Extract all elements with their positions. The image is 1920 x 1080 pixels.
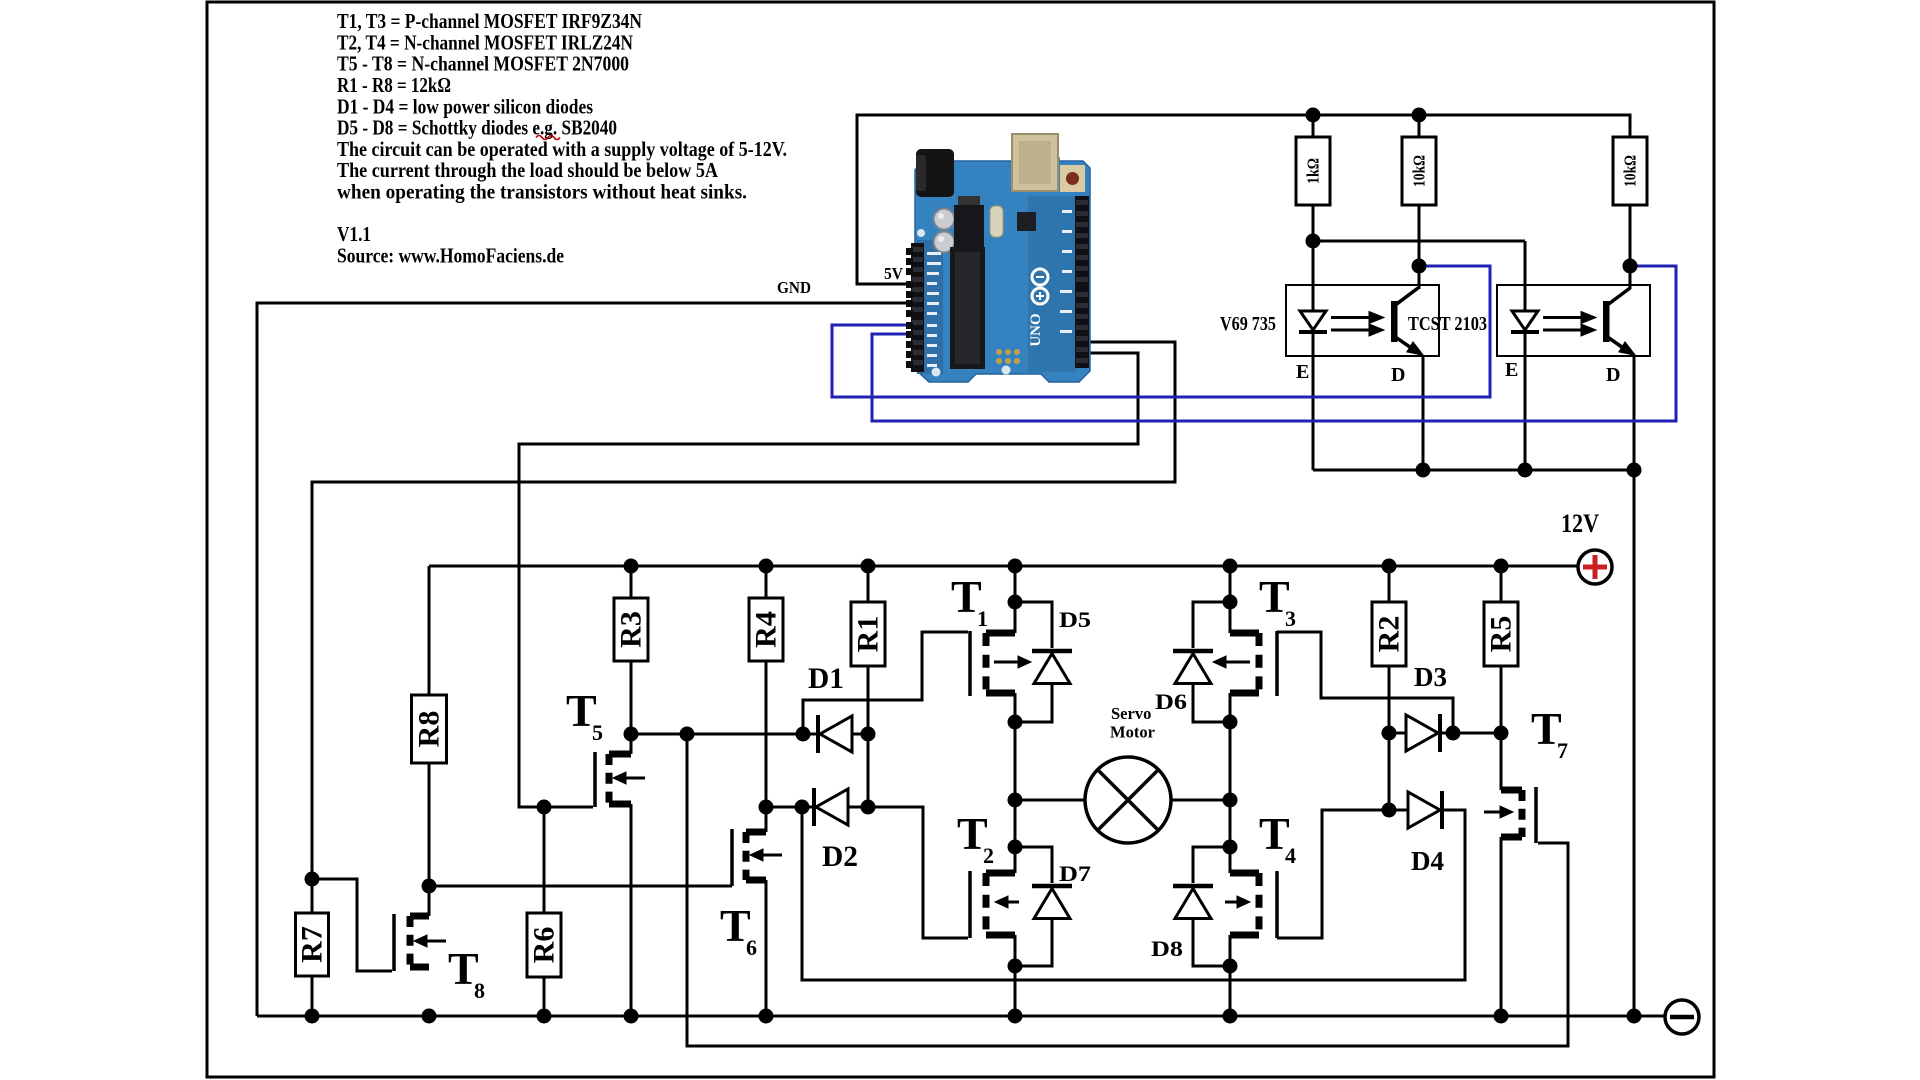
Arduino pin header left [911, 243, 924, 372]
wire LED2 anode [1524, 241, 1527, 311]
svg-text:D7: D7 [1059, 861, 1091, 886]
node T3 drain D6 [1223, 595, 1238, 610]
svg-text:Motor: Motor [1110, 723, 1155, 742]
svg-text:10kΩ: 10kΩ [1410, 155, 1429, 187]
node T7 gate tap [680, 727, 695, 742]
wire top 12V rail [429, 565, 1578, 568]
Arduino mounting holes [932, 368, 941, 377]
node R4 D2 [759, 800, 774, 815]
blue wire Arduino A1 to phototransistor2 collector [872, 266, 1676, 421]
resistor R2 [1372, 602, 1406, 666]
resistor R1 [851, 602, 885, 666]
wire D2 node to T2 gate [868, 807, 968, 938]
resistor 10kohm right [1613, 137, 1647, 205]
wire T4 gate to D4 anode node [1277, 810, 1389, 938]
Arduino electrolytic capacitors [934, 209, 955, 230]
wire T7 source to bottom rail [1500, 837, 1503, 1016]
servo motor [1085, 757, 1171, 843]
node rail R6 [537, 1009, 552, 1024]
transistor T1 (IRF9Z34N) [986, 633, 1015, 693]
wire Arduino digital out B to T5 gate [519, 353, 1138, 807]
svg-text:R6: R6 [528, 927, 561, 964]
transistor T2 (IRLZ24N) [986, 873, 1015, 935]
wire D2 node to D4 cathode (long route) [802, 807, 1465, 980]
transistor T6 arrow [750, 849, 782, 861]
wire LED2 cathode down [1524, 333, 1527, 470]
wire R2 to D3/D4 nodes [1388, 666, 1391, 810]
transistor T3 gate bar [1275, 631, 1279, 696]
wire D7 bottom branch [1015, 920, 1052, 966]
wire phototransistor1 emitter down [1422, 356, 1425, 470]
wire D7 top branch [1015, 847, 1052, 883]
wire node to R7 [311, 879, 314, 913]
Arduino SMD IC [1017, 212, 1036, 231]
node R2 D3 [1382, 726, 1397, 741]
Arduino voltage regulator [954, 205, 984, 247]
red squiggle under e.g. [536, 136, 560, 140]
node T3 source D6 [1223, 715, 1238, 730]
node emitter1 rail [1416, 463, 1431, 478]
wire T8 gate lead [312, 879, 392, 971]
node D1 cathode [796, 727, 811, 742]
diode D2 [814, 788, 848, 826]
transistor T4 (IRLZ24N) [1230, 873, 1259, 935]
node R1 D2 [861, 800, 876, 815]
svg-text:UNO: UNO [1028, 313, 1044, 346]
node R3 T5 [624, 727, 639, 742]
info text block [337, 9, 787, 267]
node motor left [1008, 793, 1023, 808]
Arduino crystal [990, 206, 1003, 237]
transistor T2 arrow [995, 896, 1019, 908]
svg-text:D6: D6 [1155, 689, 1187, 714]
node collector2 [1623, 259, 1638, 274]
svg-text:1kΩ: 1kΩ [1304, 158, 1323, 184]
wire rail to R8 [428, 566, 431, 695]
wire T3 source to motor node [1229, 693, 1232, 800]
svg-text:E: E [1505, 359, 1518, 381]
svg-text:D1: D1 [808, 662, 844, 695]
svg-text:E: E [1296, 361, 1309, 383]
optocoupler 1 phototransistor [1391, 288, 1425, 356]
node rail R5 [1494, 559, 1509, 574]
node rail R4 [759, 559, 774, 574]
svg-text:6: 6 [746, 935, 757, 960]
wire T5 gate node to R6 [543, 807, 546, 913]
optocoupler 2 box [1497, 285, 1650, 356]
node rail T8 [422, 1009, 437, 1024]
wire 10k ohm top tap [1418, 115, 1421, 137]
svg-text:4: 4 [1285, 843, 1296, 868]
wire D8 bottom branch [1193, 920, 1230, 966]
wire R4 to T6 drain [765, 661, 768, 832]
resistor R3 [614, 598, 648, 661]
node rail T7 [1494, 1009, 1509, 1024]
node motor right [1223, 793, 1238, 808]
Arduino ICSP header [996, 349, 1020, 364]
svg-text:TCST 2103: TCST 2103 [1408, 313, 1487, 335]
node rail R3 [624, 559, 639, 574]
node T2 source D7 [1008, 959, 1023, 974]
svg-text:D8: D8 [1151, 936, 1183, 961]
wire T5 source to bottom rail [630, 804, 633, 1016]
resistor 10kohm left [1402, 137, 1436, 205]
wire T4 source to bottom rail [1229, 935, 1232, 1016]
wire 1k ohm top tap [1312, 115, 1315, 137]
svg-text:3: 3 [1285, 606, 1296, 631]
diode D5 (Schottky) [1032, 651, 1072, 684]
svg-text:R8: R8 [413, 711, 446, 748]
node T1 drain D5 [1008, 595, 1023, 610]
wire T2 source to bottom rail [1014, 935, 1017, 1016]
node rail T4 [1223, 1009, 1238, 1024]
optocoupler 1 light arrow upper [1331, 312, 1384, 324]
Arduino ATmega DIP-28 IC [950, 247, 985, 369]
svg-text:8: 8 [474, 978, 485, 1003]
transistor T4 arrow [1225, 896, 1250, 908]
resistor R6 [527, 913, 561, 977]
wire D6 bottom branch [1193, 685, 1230, 722]
wire motor node to T4 drain [1229, 800, 1232, 873]
node rail R1 [861, 559, 876, 574]
node T1 source D5 [1008, 715, 1023, 730]
wire D8 top branch [1193, 847, 1230, 883]
svg-text:12V: 12V [1561, 509, 1599, 538]
transistor T6 (2N7000) [732, 829, 766, 886]
wire T1 source to motor node [1014, 693, 1017, 800]
transistor T8 arrow [414, 935, 446, 947]
node rail T2 [1008, 1009, 1023, 1024]
wire rail to R2 [1388, 566, 1391, 602]
svg-text:1: 1 [977, 606, 988, 631]
Arduino silkscreen pin labels [927, 210, 1072, 367]
node rail R2 [1382, 559, 1397, 574]
svg-text:when operating the transistors: when operating the transistors without h… [337, 180, 747, 204]
node LED anodes [1306, 234, 1321, 249]
svg-text:10kΩ: 10kΩ [1621, 155, 1640, 187]
svg-text:R1: R1 [852, 616, 885, 653]
diode D7 (Schottky) [1032, 886, 1072, 919]
transistor T5 (2N7000) [595, 752, 631, 807]
wire D3 node to T7 drain [1500, 733, 1503, 790]
minus terminal [1665, 1000, 1699, 1034]
diode D8 (Schottky) [1173, 886, 1213, 919]
wire D5 bottom branch [1015, 685, 1052, 722]
wire 1k ohm bottom [1312, 205, 1315, 241]
Arduino DC power jack [916, 149, 954, 197]
wire 10k to phototransistor1 collector [1418, 205, 1421, 289]
wire 5V rail to pull-up resistors [857, 115, 1630, 284]
resistor R5 [1484, 602, 1518, 666]
svg-text:R4: R4 [750, 611, 783, 648]
transistor T5 arrow [613, 772, 645, 784]
transistor T4 gate bar [1275, 871, 1279, 938]
wire R5 to D3 node [1500, 666, 1503, 733]
wire T8 drain node to T6 gate [429, 885, 732, 888]
svg-text:R5: R5 [1485, 616, 1518, 653]
node rail opto [1627, 1009, 1642, 1024]
node 5V/1k [1306, 108, 1321, 123]
node rail T6 [759, 1009, 774, 1024]
resistor R4 [749, 598, 783, 661]
wire R3 to T5 drain [630, 661, 633, 754]
node emitter2 rail [1627, 463, 1642, 478]
svg-text:V69 735: V69 735 [1220, 313, 1276, 335]
svg-text:5V: 5V [884, 264, 904, 283]
resistor R7 [296, 913, 329, 976]
node T2 drain D7 [1008, 840, 1023, 855]
border frame [207, 2, 1714, 1077]
optocoupler 2 light arrow lower [1543, 324, 1596, 336]
node R2 D4 [1382, 803, 1397, 818]
Arduino reset button [1060, 165, 1085, 192]
wire R7 to bottom rail [311, 976, 314, 1016]
svg-text:Source: www.HomoFaciens.de: Source: www.HomoFaciens.de [337, 243, 564, 267]
transistor T7 (2N7000) [1501, 787, 1536, 843]
node D3 cathode [1446, 726, 1461, 741]
wire motor right lead [1170, 799, 1230, 802]
svg-text:D: D [1391, 364, 1405, 386]
transistor T1 arrow [994, 656, 1031, 668]
node D2 cathode [795, 800, 810, 815]
svg-text:D2: D2 [822, 840, 858, 873]
svg-text:Servo: Servo [1111, 704, 1151, 723]
wire D5 top branch [1015, 602, 1052, 648]
wire T6 source to bottom rail [765, 880, 768, 1016]
wire opto rail to bottom rail [1633, 470, 1636, 1016]
wire node to T7 gate (long route) [687, 734, 1568, 1046]
diode D3 [1406, 714, 1440, 752]
svg-text:D4: D4 [1411, 846, 1444, 876]
diode D1 [818, 715, 852, 753]
node T4 source D8 [1223, 959, 1238, 974]
optocoupler 1 LED [1299, 311, 1327, 332]
wire T3 gate to D3 cathode node [1277, 632, 1453, 733]
transistor T1 gate bar [968, 631, 972, 696]
resistor R8 [412, 695, 447, 763]
node LED2 rail [1518, 463, 1533, 478]
svg-text:GND: GND [777, 278, 811, 297]
wire rail to T1 drain [1014, 566, 1017, 633]
wire GND from Arduino to bottom rail [257, 303, 910, 1016]
optocoupler 2 phototransistor [1603, 288, 1637, 356]
transistor T2 gate bar [968, 871, 972, 938]
wire bottom supply rail (minus) [257, 1015, 1665, 1018]
wire Arduino digital out A to T8 gate node [312, 342, 1175, 879]
svg-text:V1.1: V1.1 [337, 222, 371, 246]
node rail T5 [624, 1009, 639, 1024]
wire rail to T3 drain [1229, 566, 1232, 633]
svg-text:R2: R2 [1373, 616, 1406, 653]
blue wire Arduino A0 to phototransistor1 collector [832, 266, 1490, 397]
Arduino left pin stubs [906, 248, 913, 368]
wire R1 to D1/D2 nodes [867, 666, 870, 807]
Arduino UNO board [906, 134, 1090, 382]
diode D6 (Schottky) [1173, 651, 1213, 684]
svg-text:7: 7 [1557, 738, 1568, 763]
transistor T3 arrow [1213, 656, 1250, 668]
optocoupler 1 light arrow lower [1331, 324, 1384, 336]
resistor 1kohm [1296, 137, 1330, 205]
wire 10k to phototransistor2 collector [1629, 205, 1632, 289]
svg-text:5: 5 [592, 720, 603, 745]
node R8 T8 drain [422, 879, 437, 894]
diode D4 [1408, 791, 1442, 829]
svg-text:R7: R7 [296, 926, 329, 963]
node R1 D1 [861, 727, 876, 742]
wire rail to R4 [765, 566, 768, 598]
node 5V/10k [1412, 108, 1427, 123]
wire D1 node to T1 gate [803, 632, 968, 734]
Arduino logo [1032, 269, 1048, 285]
node T4 drain D8 [1223, 840, 1238, 855]
transistor T3 (IRF9Z34N) [1230, 633, 1259, 693]
wire rail to R5 [1500, 566, 1503, 602]
svg-text:D: D [1606, 364, 1620, 386]
wire R4 node to D2 to R1 [766, 806, 868, 809]
transistor T7 arrow [1484, 806, 1513, 818]
Arduino USB connector [1012, 134, 1058, 191]
wire LED1 anode [1312, 241, 1315, 311]
svg-text:D3: D3 [1414, 662, 1447, 692]
wire rail to R1 [867, 566, 870, 602]
node T5 gate R6 [537, 800, 552, 815]
svg-text:R3: R3 [615, 611, 648, 648]
wire motor left lead [1015, 799, 1086, 802]
node rail T3 [1223, 559, 1238, 574]
wire D6 top branch [1193, 602, 1230, 648]
wire R8 to T8 drain [428, 763, 431, 916]
wire phototransistor2 emitter down [1633, 356, 1636, 470]
wire R3 node to D1 to R1 [631, 733, 868, 736]
node R5 T7 [1494, 726, 1509, 741]
optocoupler 2 LED [1511, 311, 1539, 332]
wire D3 row [1389, 732, 1501, 735]
wire optocoupler emitter rail [1313, 469, 1634, 472]
transistor T8 (2N7000) [394, 914, 429, 971]
optocoupler 2 light arrow upper [1543, 312, 1596, 324]
wire D4 row [1389, 809, 1442, 812]
wire R6 to bottom rail [543, 977, 546, 1016]
node wireA R7 T8gate [305, 872, 320, 887]
svg-text:2: 2 [983, 843, 994, 868]
optocoupler 1 box [1286, 285, 1439, 356]
node collector1 [1412, 259, 1427, 274]
svg-text:D5: D5 [1059, 607, 1091, 632]
wire LED1 cathode down [1312, 333, 1315, 470]
wire motor node to T2 drain [1014, 800, 1017, 873]
wire rail to R3 [630, 566, 633, 598]
Arduino pin header right [1075, 196, 1089, 368]
node rail T1 [1008, 559, 1023, 574]
node rail R7 [305, 1009, 320, 1024]
12V plus terminal [1578, 550, 1612, 584]
wire LED anode link [1313, 240, 1525, 243]
